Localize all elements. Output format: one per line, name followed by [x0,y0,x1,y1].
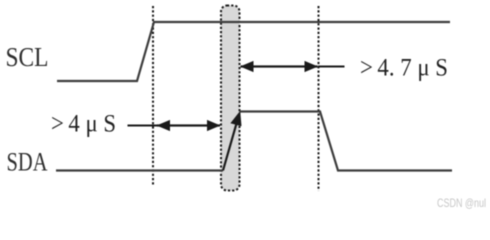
double arrow for >4uS interval [157,124,220,126]
leader line for >4uS label [128,125,159,127]
setup/hold shaded region (gray rounded band) [221,6,240,191]
dotted timing line B (SDA fall reference) [318,6,320,191]
SDA rising edge with arrowhead [223,125,236,171]
svg-text:SCL: SCL [6,42,49,72]
SCL waveform [57,22,450,81]
svg-text:SDA: SDA [7,148,48,177]
svg-text:> 4 μ S: > 4 μ S [51,111,116,138]
leader line for >4.7uS label [318,66,345,68]
SDA waveform low-high-low [56,112,452,171]
dotted timing line A (SCL rise reference) [152,6,154,186]
svg-text:> 4. 7 μ S: > 4. 7 μ S [360,55,448,82]
svg-text:CSDN @nul: CSDN @nul [437,196,486,210]
double arrow for >4.7uS interval [241,65,318,67]
